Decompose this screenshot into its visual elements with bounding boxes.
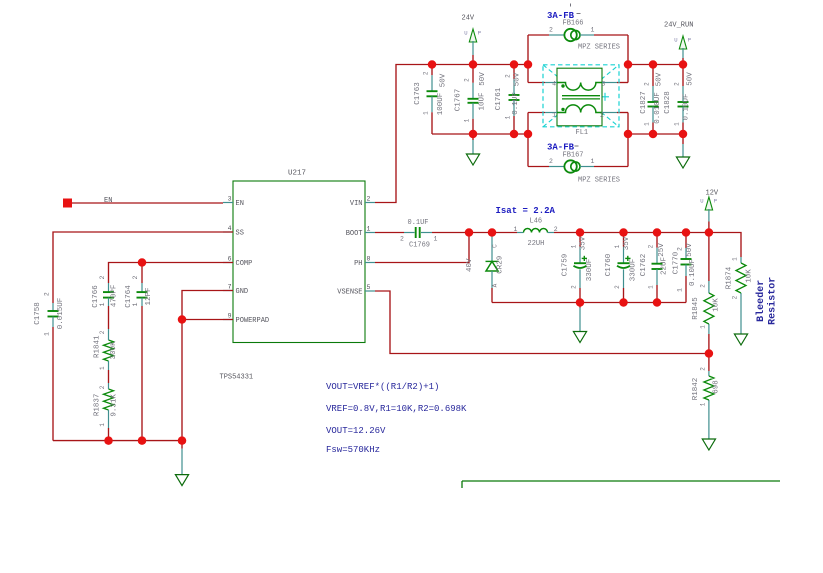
svg-text:1: 1 — [434, 236, 438, 243]
wire SS net — [53, 232, 233, 303]
IC U217 pins right — [337, 196, 375, 297]
ground R1842 — [702, 406, 715, 450]
stray tick right of FB167 label — [575, 145, 579, 147]
svg-text:R1837: R1837 — [94, 394, 102, 417]
svg-text:R1845: R1845 — [692, 297, 700, 320]
svg-text:50V: 50V — [687, 72, 695, 86]
svg-text:22UF: 22UF — [661, 257, 669, 275]
svg-text:C1758: C1758 — [34, 302, 42, 325]
svg-text:698: 698 — [713, 380, 721, 394]
svg-text:2: 2 — [367, 196, 371, 203]
wire COMP to C1764 — [141, 263, 143, 284]
wire 12V output rail — [554, 233, 741, 258]
capacitor C1828 0.1UF 50V — [664, 65, 695, 135]
svg-text:C1828: C1828 — [664, 91, 672, 114]
svg-text:R1842: R1842 — [692, 378, 700, 401]
ground output rail — [573, 303, 586, 343]
svg-text:P: P — [714, 198, 717, 205]
wire 24V_RUN top rail — [628, 64, 683, 66]
wire PH net — [375, 233, 469, 263]
IC U217 pins left — [223, 196, 269, 326]
svg-text:1: 1 — [463, 118, 470, 122]
svg-text:1: 1 — [99, 366, 106, 370]
svg-text:C1769: C1769 — [409, 242, 430, 250]
svg-text:U: U — [700, 198, 703, 205]
wire FL1 pin3 right — [627, 35, 629, 83]
svg-text:2: 2 — [422, 71, 429, 75]
svg-text:0.10UF: 0.10UF — [689, 259, 697, 286]
svg-text:50V: 50V — [686, 243, 694, 257]
svg-text:330UF: 330UF — [586, 259, 594, 282]
power symbol 12V output — [700, 190, 719, 211]
svg-text:FB166: FB166 — [563, 20, 584, 28]
svg-text:C1767: C1767 — [455, 89, 463, 112]
power symbol 24V input — [462, 15, 482, 43]
svg-text:L46: L46 — [530, 218, 543, 226]
svg-text:12V: 12V — [706, 190, 719, 198]
capacitor C1758 0.015UF — [34, 292, 65, 440]
svg-text:Resistor: Resistor — [767, 277, 779, 325]
wire 24V_RUN stub — [682, 48, 684, 58]
diode CR29 catch — [466, 233, 505, 303]
resistor R1842 leads — [708, 371, 710, 376]
ferrite bead FB167 — [528, 143, 628, 185]
svg-text:1: 1 — [673, 122, 680, 126]
svg-text:10K: 10K — [713, 298, 721, 312]
svg-text:R1841: R1841 — [94, 335, 102, 358]
svg-text:1: 1 — [591, 27, 595, 34]
svg-text:2: 2 — [676, 247, 683, 251]
op IC U217 TPS54331 body — [220, 170, 366, 382]
wire feedback node to R1842 — [708, 354, 710, 372]
svg-text:3: 3 — [602, 80, 606, 87]
junction dots output — [465, 228, 713, 358]
svg-text:1: 1 — [676, 288, 683, 292]
svg-text:C1770: C1770 — [673, 251, 681, 274]
choke FL1 dashed DNI box — [543, 65, 619, 127]
capacitor C1759 330UF 35V (polarized) — [562, 233, 595, 303]
ground 24V_RUN section — [676, 134, 689, 168]
svg-text:12PF: 12PF — [145, 287, 153, 305]
svg-text:MPZ SERIES: MPZ SERIES — [578, 177, 620, 185]
svg-text:100UF: 100UF — [437, 93, 445, 116]
svg-text:COMP: COMP — [236, 260, 253, 268]
svg-text:2: 2 — [699, 367, 706, 371]
svg-text:0.010UF: 0.010UF — [654, 92, 662, 124]
svg-text:CR29: CR29 — [497, 256, 505, 274]
wire FL1 pin4 left — [527, 65, 529, 83]
wire VSENSE feedback net — [375, 291, 709, 354]
power symbol 24V_RUN filtered — [664, 22, 693, 50]
svg-text:50V: 50V — [514, 72, 522, 86]
capacitor C1764 12PF — [125, 275, 153, 440]
resistor R1874 10K bleeder — [725, 257, 753, 300]
svg-text:25V: 25V — [658, 243, 666, 257]
svg-text:300K: 300K — [110, 341, 118, 360]
wire 12V stub — [708, 209, 710, 222]
svg-text:2: 2 — [400, 236, 404, 243]
svg-text:2: 2 — [643, 82, 650, 86]
resistor R1842 698 — [692, 367, 721, 407]
svg-text:0.1UF: 0.1UF — [408, 219, 429, 227]
svg-text:35V: 35V — [623, 236, 631, 250]
svg-text:24V: 24V — [462, 15, 475, 23]
ground input section — [466, 134, 479, 165]
svg-text:2: 2 — [463, 78, 470, 82]
svg-text:MPZ SERIES: MPZ SERIES — [578, 44, 620, 52]
wire C1766 to R1841 — [108, 306, 110, 329]
svg-text:1: 1 — [504, 115, 511, 119]
svg-text:1: 1 — [367, 226, 371, 233]
svg-text:U: U — [464, 30, 467, 37]
svg-text:2: 2 — [614, 285, 621, 289]
resistor R1874 leads — [740, 257, 742, 263]
svg-text:A: A — [492, 283, 499, 287]
svg-text:VSENSE: VSENSE — [337, 289, 362, 297]
svg-text:Fsw=570KHz: Fsw=570KHz — [326, 445, 380, 455]
svg-text:8: 8 — [367, 256, 371, 263]
wire 24V stub — [472, 41, 474, 55]
svg-text:VOUT=VREF*((R1/R2)+1): VOUT=VREF*((R1/R2)+1) — [326, 382, 439, 392]
svg-text:9.31K: 9.31K — [111, 394, 119, 417]
svg-text:1: 1 — [614, 244, 621, 248]
wire input bottom rail — [432, 133, 528, 135]
svg-text:R1874: R1874 — [725, 266, 733, 289]
ground left rail — [175, 441, 188, 486]
wire 24V_RUN bottom rail — [628, 133, 683, 135]
svg-text:2: 2 — [549, 27, 553, 34]
wire 12V rail to R1845 — [708, 233, 710, 282]
capacitor C1769 0.1UF boot — [400, 219, 469, 250]
svg-text:330UF: 330UF — [630, 259, 638, 282]
svg-text:EN: EN — [104, 197, 112, 205]
svg-text:2: 2 — [132, 275, 139, 279]
svg-text:3: 3 — [228, 196, 232, 203]
wire R1837 leads — [108, 383, 110, 389]
svg-text:2: 2 — [549, 158, 553, 165]
svg-text:50V: 50V — [479, 72, 487, 86]
svg-text:2: 2 — [504, 74, 511, 78]
wire GND pin to powerpad riser — [182, 291, 233, 441]
wire FL1 pin2 right — [617, 112, 628, 114]
svg-text:1: 1 — [699, 402, 706, 406]
ferrite bead FB166 — [528, 11, 628, 52]
svg-text:7: 7 — [228, 284, 232, 291]
svg-text:1: 1 — [732, 257, 739, 261]
svg-text:2: 2 — [99, 330, 106, 334]
svg-text:C1760: C1760 — [605, 253, 613, 276]
capacitor C1767 10UF 50V — [455, 65, 487, 135]
svg-text:P: P — [478, 30, 481, 37]
wire left ground rail — [53, 440, 182, 442]
junction dots input rails — [428, 60, 688, 138]
svg-text:10K: 10K — [745, 269, 753, 283]
capacitor C1761 0.1UF 50V — [495, 65, 522, 135]
choke FL1 pin stubs — [545, 83, 617, 113]
resistor R1837 9.31K — [94, 385, 119, 426]
svg-text:10UF: 10UF — [479, 92, 487, 110]
svg-text:40V: 40V — [466, 258, 474, 272]
wire R1841 leads — [108, 329, 110, 340]
svg-text:1: 1 — [132, 302, 139, 306]
stray tick above FB166 — [570, 4, 572, 7]
svg-text:2: 2 — [699, 284, 706, 288]
svg-text:C1762: C1762 — [640, 254, 648, 277]
svg-text:1: 1 — [43, 332, 50, 336]
svg-text:1: 1 — [99, 302, 106, 306]
svg-text:1: 1 — [647, 285, 654, 289]
inductor L46 22UH — [514, 218, 558, 249]
svg-text:C1761: C1761 — [495, 87, 503, 110]
svg-text:POWERPAD: POWERPAD — [236, 317, 270, 325]
svg-text:VIN: VIN — [350, 200, 363, 208]
svg-text:VREF=0.8V,R1=10K,R2=0.698K: VREF=0.8V,R1=10K,R2=0.698K — [326, 404, 467, 414]
resistor R1845 10K — [692, 284, 721, 329]
svg-text:1: 1 — [643, 122, 650, 126]
resistor R1841 300K — [94, 330, 119, 370]
svg-text:2: 2 — [570, 285, 577, 289]
svg-text:50V: 50V — [655, 72, 663, 86]
junction dots left — [104, 258, 186, 445]
svg-text:TPS54331: TPS54331 — [220, 374, 254, 382]
capacitor C1762 22UF 25V — [640, 233, 669, 303]
choke FL1 pin numbers — [552, 80, 605, 119]
wire output ground rail — [492, 302, 686, 304]
svg-text:0.10UF: 0.10UF — [683, 93, 691, 120]
svg-text:1: 1 — [699, 325, 706, 329]
capacitor C1827 0.010UF 50V — [640, 65, 663, 135]
svg-text:2: 2 — [99, 275, 106, 279]
svg-text:5: 5 — [367, 284, 371, 291]
wire COMP net — [109, 263, 234, 284]
wire PH to inductor — [469, 232, 517, 234]
capacitor C1763 100UF 50V — [414, 65, 448, 135]
svg-text:1: 1 — [422, 111, 429, 115]
svg-text:U: U — [674, 37, 677, 44]
svg-text:2: 2 — [99, 385, 106, 389]
svg-text:50V: 50V — [440, 73, 448, 87]
wire R1837 to gnd rail — [108, 428, 110, 441]
svg-text:2: 2 — [673, 82, 680, 86]
svg-text:35V: 35V — [580, 236, 588, 250]
svg-text:2: 2 — [647, 244, 654, 248]
svg-text:C: C — [492, 244, 499, 248]
svg-text:BOOT: BOOT — [346, 230, 363, 238]
svg-text:PH: PH — [354, 260, 362, 268]
svg-text:2: 2 — [732, 295, 739, 299]
wire FL1 pin1 left — [528, 112, 545, 114]
svg-text:4: 4 — [552, 80, 556, 87]
border next block corner — [462, 481, 780, 488]
svg-text:0.015UF: 0.015UF — [57, 298, 65, 330]
label Bleeder Resistor — [755, 277, 779, 325]
svg-text:1: 1 — [570, 244, 577, 248]
svg-text:6: 6 — [228, 256, 232, 263]
svg-text:Bleeder: Bleeder — [755, 280, 767, 322]
wire R1845 to feedback node — [708, 334, 710, 354]
capacitor C1760 330UF 35V (polarized) — [605, 233, 638, 303]
svg-text:GND: GND — [236, 288, 249, 296]
svg-text:C1759: C1759 — [562, 254, 570, 277]
svg-text:1: 1 — [99, 423, 106, 427]
note design formulas — [326, 382, 467, 455]
capacitor C1770 0.1UF output — [673, 233, 698, 303]
svg-text:0.1UF: 0.1UF — [512, 92, 520, 115]
svg-text:P: P — [688, 37, 691, 44]
svg-text:22UH: 22UH — [528, 240, 545, 248]
svg-text:4: 4 — [228, 225, 232, 232]
svg-text:1: 1 — [552, 111, 556, 118]
choke FL1 body — [557, 68, 602, 126]
resistor R1845 leads — [708, 281, 710, 293]
svg-text:1: 1 — [591, 158, 595, 165]
svg-text:2: 2 — [600, 112, 604, 119]
svg-text:C1763: C1763 — [414, 82, 422, 105]
svg-text:24V_RUN: 24V_RUN — [664, 22, 693, 30]
capacitor C1766 470PF — [92, 275, 118, 307]
svg-text:SS: SS — [236, 230, 244, 238]
svg-text:EN: EN — [236, 200, 244, 208]
svg-text:470PF: 470PF — [110, 285, 118, 308]
svg-text:VOUT=12.26V: VOUT=12.26V — [326, 426, 386, 436]
wire 24V top rail riser to FB166 — [527, 35, 529, 65]
wire riser bottom-left to FB167 — [527, 113, 529, 167]
port EN input — [63, 197, 223, 208]
wire BOOT net — [375, 232, 404, 234]
svg-text:2: 2 — [43, 292, 50, 296]
wire POWERPAD — [182, 319, 233, 321]
svg-text:9: 9 — [228, 313, 232, 320]
svg-text:FB167: FB167 — [563, 152, 584, 160]
ground R1874 — [734, 300, 747, 345]
wire VIN net: pin to top rail riser — [375, 65, 528, 203]
wire R1841 to R1837 — [108, 370, 110, 383]
svg-text:C1827: C1827 — [640, 91, 648, 114]
svg-text:U217: U217 — [288, 170, 306, 178]
svg-text:FL1: FL1 — [576, 129, 589, 137]
svg-text:Isat = 2.2A: Isat = 2.2A — [496, 206, 556, 216]
svg-text:1: 1 — [514, 226, 518, 233]
